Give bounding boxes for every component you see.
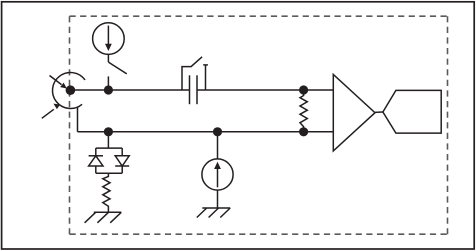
arrow to shield <box>42 104 60 119</box>
node B (junction dot on bottom bus above diodes) <box>104 127 113 136</box>
wire: bottom bus LO to amplifier <box>78 131 334 133</box>
output tag (to measurement circuits) <box>383 90 441 133</box>
node HI (connector center pin dot) <box>66 85 76 95</box>
wire: node C to current source I2 <box>217 132 219 159</box>
op-amp U1 (buffer triangle) <box>333 75 375 151</box>
wire: top bus HI from connector to capacitor <box>70 89 189 91</box>
shield enclosure boundary (dashed) <box>70 16 448 234</box>
wire: shield down from connector <box>77 107 79 132</box>
capacitor C1 <box>190 75 198 104</box>
resistor R2 (input resistance) <box>300 90 307 132</box>
node D (junction dot, top of R2) <box>299 85 308 94</box>
wire: amplifier output <box>375 111 383 113</box>
current source I1 <box>93 23 125 55</box>
switch S2 (bypass across C1) <box>182 57 208 90</box>
node A (junction dot on top bus) <box>104 85 113 94</box>
input connector J1 (triax shell arc) <box>52 73 85 109</box>
wire: I2 to ground <box>217 190 219 208</box>
switch S1 (open) <box>108 62 126 90</box>
ground (chassis) G1 <box>85 212 122 223</box>
ground (chassis) G2 <box>197 208 230 218</box>
wire: I1 to switch S1 <box>107 54 109 62</box>
resistor R1 (to chassis) <box>103 173 110 212</box>
node E (junction dot, bottom of R2) <box>299 127 308 136</box>
node C (junction dot on bottom bus at current source) <box>213 127 222 136</box>
current source I2 <box>202 159 233 190</box>
arrow to center pin <box>50 76 67 89</box>
wire: node B to diode pair <box>107 132 109 148</box>
diode pair D1 D2 (back-to-back clamp) <box>89 148 130 173</box>
wire: top bus HI from capacitor to amplifier <box>197 89 333 91</box>
